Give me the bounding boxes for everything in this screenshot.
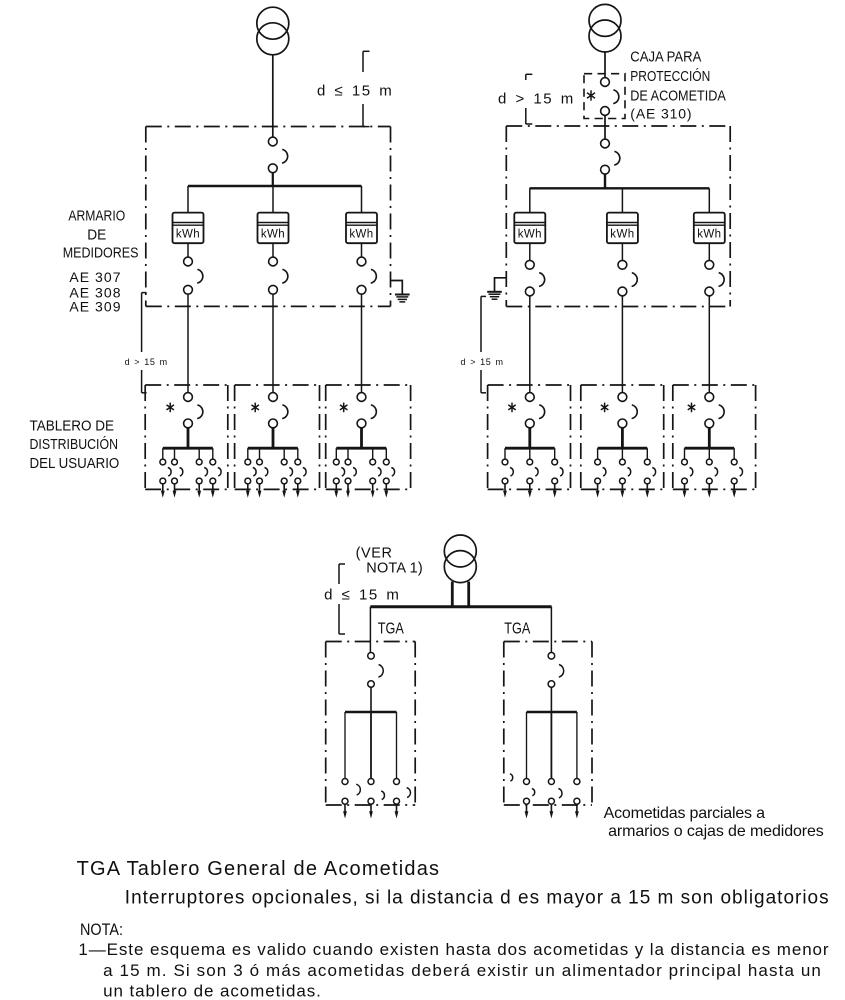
branch circuit TD4.3 with switch and outgoing arrow — [552, 448, 563, 498]
armario de medidores enclosure box B (dash-dot) — [506, 126, 730, 307]
tablero box TD2 (dash-dot enclosure) — [235, 385, 320, 489]
switch S-M6 — [705, 260, 724, 296]
branch switch arc in TGA1 — [407, 788, 411, 798]
branch circuit TD4.1 with switch and outgoing arrow — [502, 448, 513, 498]
wire from switch S2 to bus B — [604, 174, 606, 188]
branch circuit TD3.3 with switch and outgoing arrow — [370, 448, 381, 498]
bus of TGA2 — [527, 711, 577, 714]
branch switch arc in TGA2 — [510, 774, 513, 781]
branch circuit TD6.1 with switch and outgoing arrow — [682, 448, 693, 498]
branch switch arc in TGA1 — [356, 784, 360, 795]
wire from M6 column down to user board — [708, 296, 710, 393]
svg-text:kWh: kWh — [697, 229, 721, 241]
wire from meter M3 to switch below — [361, 243, 363, 257]
svg-text:d ≤ 15 m: d ≤ 15 m — [317, 82, 393, 99]
svg-text:DEL USUARIO: DEL USUARIO — [30, 456, 120, 472]
branch circuit TD3.2 with switch and outgoing arrow — [345, 448, 356, 498]
thick service bus under transformer T3 — [370, 582, 551, 607]
feeder stub and bus of TD1 — [163, 428, 213, 449]
distance marker d>15m (between armario and tableros, left) — [142, 293, 147, 393]
branch switch arc in TGA2 — [558, 789, 562, 798]
svg-text:(VER: (VER — [356, 546, 392, 562]
feeder stub and bus of TD6 — [685, 428, 735, 449]
switch S-M3 — [357, 257, 376, 294]
wire from protection box to switch S2 — [604, 115, 606, 139]
svg-text:AE 309: AE 309 — [69, 299, 120, 315]
tablero box TD6 (dash-dot enclosure) — [673, 385, 756, 489]
kWh meter M5 — [607, 213, 638, 244]
svg-text:AE 307: AE 307 — [69, 269, 120, 285]
branch circuit TD6.2 with switch and outgoing arrow — [706, 448, 717, 498]
svg-text:DE ACOMETIDA: DE ACOMETIDA — [630, 88, 726, 104]
branch circuit TD2.1 with switch and outgoing arrow — [245, 448, 256, 498]
feeder stub and bus of TD2 — [248, 428, 298, 449]
wire from meter M1 to switch below — [187, 243, 189, 257]
ground symbol G2 — [487, 278, 506, 299]
svg-text:(AE 310): (AE 310) — [630, 106, 691, 122]
label Acometidas parciales a armarios o cajas de medidores — [604, 805, 824, 840]
wire from meter M6 to switch below — [708, 243, 710, 260]
ground symbol G1 — [391, 281, 410, 302]
wire from meter M4 to switch below — [529, 243, 531, 260]
switch with optional-interrupter asterisk in TD6 — [688, 393, 724, 428]
svg-text:kWh: kWh — [610, 229, 634, 241]
kWh meter M3 — [346, 213, 377, 244]
svg-text:DE: DE — [87, 227, 106, 243]
branch circuit TGA2.2 with switch and outgoing arrow — [548, 712, 554, 819]
switch S1 — [268, 137, 287, 173]
switch S-M4 — [525, 260, 544, 296]
svg-text:d > 15 m: d > 15 m — [498, 90, 575, 107]
caja para proteccion de acometida AE310 (dashed box) — [584, 74, 625, 119]
wire from M4 column down to user board — [529, 296, 531, 393]
switch with optional-interrupter asterisk in TD4 — [508, 393, 544, 428]
svg-text:TABLERO DE: TABLERO DE — [30, 419, 115, 435]
svg-text:MEDIDORES: MEDIDORES — [63, 246, 139, 262]
branch circuit TD1.1 with switch and outgoing arrow — [160, 448, 171, 498]
svg-text:NOTA:: NOTA: — [80, 920, 123, 939]
svg-text:PROTECCIÓN: PROTECCIÓN — [630, 68, 710, 85]
TGA general service board box TGA1 (dash-dot enclosure) — [326, 642, 416, 806]
branch circuit TD1.2 with switch and outgoing arrow — [172, 448, 183, 498]
switch S2 — [601, 139, 620, 174]
svg-text:kWh: kWh — [176, 229, 200, 241]
transformer T2 — [589, 4, 621, 52]
svg-text:Interruptores opcionales, si l: Interruptores opcionales, si la distanci… — [125, 887, 829, 908]
svg-text:a 15 m. Si son 3 ó más acometi: a 15 m. Si son 3 ó más acometidas deberá… — [103, 961, 821, 980]
switch with optional-interrupter asterisk in TD2 — [251, 393, 287, 428]
tablero box TD3 (dash-dot enclosure) — [326, 385, 411, 489]
wire from bus A to meter M3 — [361, 186, 363, 213]
bus B (meter feeder busbar) — [530, 187, 710, 189]
wire from bus B to meter M4 — [529, 188, 531, 212]
wire from bus A to meter M2 — [272, 186, 274, 213]
tablero box TD1 (dash-dot enclosure) — [145, 385, 228, 489]
svg-text:Acometidas parciales a: Acometidas parciales a — [604, 805, 765, 822]
kWh meter M1 — [173, 213, 204, 244]
branch switch arc in TGA1 — [381, 791, 384, 800]
tablero box TD4 (dash-dot enclosure) — [488, 385, 571, 489]
kWh meter M4 — [514, 213, 545, 244]
wire from bus C down to TGA box 1 — [369, 607, 371, 653]
svg-text:kWh: kWh — [518, 229, 542, 241]
svg-text:TGA: TGA — [504, 621, 530, 638]
svg-text:1—Este esquema es valido cuand: 1—Este esquema es valido cuando existen … — [78, 940, 829, 959]
branch circuit TD2.4 with switch and outgoing arrow — [295, 448, 306, 498]
branch circuit TD1.4 with switch and outgoing arrow — [210, 448, 221, 498]
branch circuit TD2.3 with switch and outgoing arrow — [281, 448, 292, 498]
svg-text:CAJA PARA: CAJA PARA — [630, 49, 701, 65]
wire from M1 column down to user board — [187, 294, 189, 393]
svg-text:armarios o cajas de medidores: armarios o cajas de medidores — [608, 823, 824, 840]
TGA general service board box TGA2 (dash-dot enclosure) — [504, 642, 592, 806]
distance marker d>15m (diagram B) — [526, 74, 533, 124]
svg-text:DISTRIBUCIÓN: DISTRIBUCIÓN — [30, 436, 119, 453]
bus A (meter feeder busbar) — [188, 185, 362, 187]
label TABLERO DE DISTRIBUCION DEL USUARIO — [30, 419, 120, 472]
switch S-M2 — [269, 257, 288, 294]
label (VER NOTA 1) — [356, 546, 423, 577]
branch circuit TD2.2 with switch and outgoing arrow — [257, 448, 268, 498]
branch circuit TGA2.1 with switch and outgoing arrow — [524, 712, 530, 819]
branch circuit TD4.2 with switch and outgoing arrow — [527, 448, 538, 498]
distance marker d<=15m (diagram A) — [363, 51, 370, 126]
bus of TGA1 — [345, 711, 397, 714]
branch circuit TD1.3 with switch and outgoing arrow — [196, 448, 207, 498]
kWh meter M6 — [694, 213, 725, 244]
wire from M3 column down to user board — [361, 294, 363, 393]
wire from transformer T2 to service protection box — [604, 52, 606, 78]
wire from bus B to meter M6 — [708, 188, 710, 212]
branch circuit TD3.4 with switch and outgoing arrow — [383, 448, 394, 498]
svg-text:ARMARIO: ARMARIO — [68, 209, 125, 225]
switch with optional-interrupter asterisk in TD3 — [340, 393, 376, 428]
switch S-M5 — [618, 260, 637, 296]
main switch in TGA1 — [368, 653, 384, 688]
svg-text:d > 15 m: d > 15 m — [461, 357, 504, 367]
transformer T1 — [257, 7, 289, 55]
wire from M5 column down to user board — [621, 296, 623, 393]
feeder stub and bus of TD5 — [598, 428, 648, 449]
svg-text:d ≤ 15 m: d ≤ 15 m — [324, 587, 400, 604]
svg-text:TGA Tablero General de Acometi: TGA Tablero General de Acometidas — [77, 858, 439, 880]
branch circuit TD6.3 with switch and outgoing arrow — [731, 448, 742, 498]
wire from meter M2 to switch below — [272, 243, 274, 257]
svg-text:TGA: TGA — [378, 621, 404, 638]
label ARMARIO DE MEDIDORES — [63, 209, 139, 262]
branch circuit TD5.2 with switch and outgoing arrow — [620, 448, 631, 498]
switch with optional-interrupter asterisk in TD1 — [166, 393, 202, 428]
main switch in TGA2 — [548, 653, 564, 688]
kWh meter M2 — [258, 213, 289, 244]
branch circuit TD5.1 with switch and outgoing arrow — [595, 448, 606, 498]
wire from switch to bus of TGA2 — [550, 687, 552, 712]
switch with asterisk inside protection box — [587, 78, 619, 116]
svg-text:un tablero de acometidas.: un tablero de acometidas. — [103, 981, 321, 1000]
wire from bus B to meter M5 — [621, 188, 623, 212]
branch circuit TGA1.2 with switch and outgoing arrow — [368, 712, 374, 819]
branch circuit TD5.3 with switch and outgoing arrow — [644, 448, 655, 498]
branch circuit TGA2.3 with switch and outgoing arrow — [574, 712, 580, 819]
wire from switch S1 to bus A — [272, 173, 274, 186]
wire from bus C down to TGA box 2 — [550, 607, 552, 653]
labels AE 307 / AE 308 / AE 309 — [69, 269, 120, 314]
armario de medidores enclosure box (dash-dot) — [146, 127, 391, 307]
tablero box TD5 (dash-dot enclosure) — [581, 385, 664, 489]
feeder stub and bus of TD3 — [336, 428, 386, 449]
svg-text:NOTA 1): NOTA 1) — [366, 560, 422, 576]
switch with optional-interrupter asterisk in TD5 — [601, 393, 637, 428]
label CAJA PARA PROTECCION DE ACOMETIDA (AE 310) — [630, 49, 726, 121]
branch switch arc in TGA2 — [532, 789, 535, 796]
transformer T3 — [444, 535, 476, 583]
wire from bus A to meter M1 — [187, 186, 189, 213]
wire from switch to bus of TGA1 — [370, 687, 372, 712]
wire from transformer T1 down to switch S1 — [272, 55, 274, 137]
switch S-M1 — [184, 257, 203, 294]
branch circuit TGA1.1 with switch and outgoing arrow — [342, 712, 348, 819]
feeder stub and bus of TD4 — [505, 428, 555, 449]
svg-text:kWh: kWh — [349, 229, 373, 241]
wire from M2 column down to user board — [272, 294, 274, 393]
branch circuit TGA1.3 with switch and outgoing arrow — [394, 712, 400, 819]
svg-text:kWh: kWh — [261, 229, 285, 241]
branch circuit TD3.1 with switch and outgoing arrow — [333, 448, 344, 498]
distance marker d>15m (between armario B and tableros) — [481, 296, 486, 392]
wire from meter M5 to switch below — [621, 243, 623, 260]
svg-text:d > 15 m: d > 15 m — [125, 357, 168, 367]
distance marker d<=15m (diagram C) — [339, 564, 345, 634]
